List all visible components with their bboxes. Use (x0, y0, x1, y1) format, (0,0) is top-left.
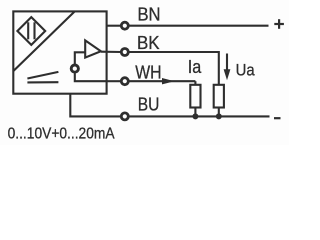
svg-text:0...10V+0...20mA: 0...10V+0...20mA (8, 126, 116, 143)
svg-text:BU: BU (138, 94, 160, 115)
svg-text:Ia: Ia (188, 57, 202, 77)
svg-text:BN: BN (138, 3, 161, 24)
svg-text:BK: BK (137, 32, 160, 53)
svg-text:WH: WH (135, 61, 161, 82)
svg-text:Ua: Ua (236, 61, 255, 80)
